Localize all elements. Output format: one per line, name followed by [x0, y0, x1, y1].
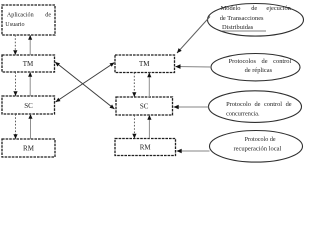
svg-text:Aplicación: Aplicación [7, 12, 34, 18]
svg-text:TM: TM [23, 60, 34, 68]
svg-text:SC: SC [24, 102, 33, 110]
svg-text:de: de [45, 12, 51, 18]
svg-text:RM: RM [140, 144, 152, 152]
svg-text:RM: RM [23, 145, 35, 153]
svg-text:Protocolo de: Protocolo de [245, 137, 276, 143]
svg-text:TM: TM [139, 60, 150, 68]
svg-text:de: de [251, 5, 257, 12]
svg-text:SC: SC [140, 103, 149, 111]
svg-text:Modelo: Modelo [221, 5, 241, 12]
svg-text:recuperación local: recuperación local [234, 145, 282, 152]
svg-text:Protocolos de control: Protocolos de control [229, 58, 292, 65]
svg-text:de Transacciones: de Transacciones [220, 15, 264, 22]
svg-text:Distribuidas: Distribuidas [222, 24, 254, 31]
svg-text:ejecución: ejecución [266, 5, 291, 12]
svg-text:Usuario: Usuario [5, 22, 24, 28]
svg-text:de réplicas: de réplicas [245, 67, 273, 74]
svg-text:concurrencia.: concurrencia. [226, 110, 260, 117]
svg-text:Protocolo de control de: Protocolo de control de [226, 101, 292, 108]
